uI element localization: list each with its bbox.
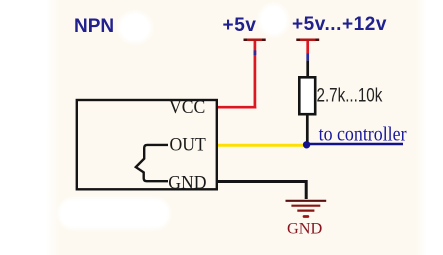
white pill blob bottom-left (decorative) bbox=[58, 198, 170, 229]
label to controller bbox=[319, 124, 408, 146]
svg-text:to controller: to controller bbox=[319, 124, 408, 146]
pin label GND bbox=[168, 172, 206, 193]
wire black GND to ground bbox=[218, 182, 306, 200]
svg-text:VCC: VCC bbox=[169, 96, 205, 117]
node junction dot bbox=[303, 141, 310, 148]
power symbol +5v...+12v bar bbox=[296, 39, 319, 42]
wire red from +5v to VCC bbox=[217, 41, 255, 107]
svg-text:+5v...+12v: +5v...+12v bbox=[292, 14, 387, 35]
wire blue to controller bbox=[307, 143, 403, 146]
wire red stub below +12v bar bbox=[306, 41, 309, 54]
pin label VCC bbox=[169, 96, 205, 117]
wire black to resistor top bbox=[306, 61, 309, 79]
wire resistor bottom to junction bbox=[306, 114, 309, 145]
white blob between power labels (decorative) bbox=[256, 1, 291, 39]
svg-text:GND: GND bbox=[287, 219, 323, 238]
label NPN bbox=[74, 16, 114, 37]
white blob near NPN (decorative) bbox=[115, 9, 155, 46]
label 2.7k...10k bbox=[317, 84, 383, 106]
resistor R1 bbox=[299, 77, 315, 114]
node marker blue tick on +12v stem bbox=[306, 54, 309, 61]
sensor box bbox=[77, 100, 217, 189]
node marker blue tick on +5v stem bbox=[254, 50, 257, 55]
wire yellow from OUT bbox=[218, 144, 305, 147]
label GND (ground) bbox=[287, 219, 323, 238]
open-collector brace between OUT and GND bbox=[136, 145, 168, 181]
power label +5v...+12v bbox=[292, 14, 387, 35]
svg-text:NPN: NPN bbox=[74, 16, 114, 37]
svg-text:+5v: +5v bbox=[223, 15, 257, 36]
power label +5v bbox=[223, 15, 257, 36]
svg-text:2.7k...10k: 2.7k...10k bbox=[317, 84, 383, 106]
white left strip (decorative) bbox=[0, 0, 62, 255]
ground symbol bbox=[286, 201, 327, 217]
pin label OUT bbox=[170, 134, 206, 155]
svg-text:GND: GND bbox=[168, 172, 206, 193]
power symbol +5v bar bbox=[244, 39, 266, 42]
svg-text:OUT: OUT bbox=[170, 134, 206, 155]
